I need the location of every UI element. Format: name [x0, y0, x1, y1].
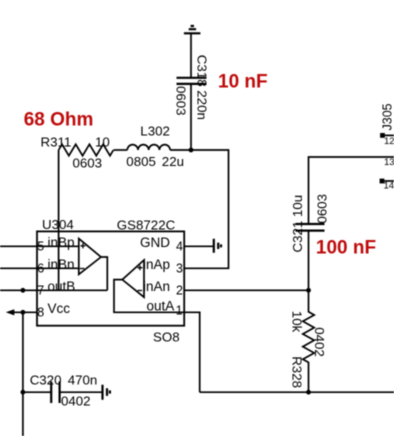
svg-text:10 nF: 10 nF [218, 72, 268, 93]
svg-text:14: 14 [384, 181, 394, 192]
svg-text:inAn: inAn [143, 279, 170, 294]
svg-text:C318 220n: C318 220n [195, 55, 210, 120]
svg-text:L302: L302 [140, 124, 170, 139]
svg-text:0603: 0603 [73, 156, 103, 171]
svg-text:2: 2 [176, 284, 183, 298]
svg-text:8: 8 [37, 306, 44, 320]
svg-text:6: 6 [37, 262, 44, 276]
svg-text:5: 5 [37, 240, 44, 254]
svg-text:GS8722C: GS8722C [117, 218, 176, 233]
svg-text:inBp: inBp [48, 235, 75, 250]
svg-text:U304: U304 [42, 217, 74, 232]
svg-text:inBn: inBn [48, 257, 75, 272]
svg-text:100 nF: 100 nF [316, 238, 376, 259]
svg-text:C321 10u: C321 10u [290, 195, 305, 253]
svg-text:10: 10 [95, 135, 110, 150]
svg-text:SO8: SO8 [153, 330, 180, 345]
svg-text:12: 12 [384, 136, 394, 147]
svg-text:22u: 22u [162, 154, 184, 169]
svg-text:inAp: inAp [143, 257, 170, 272]
svg-text:470n: 470n [68, 373, 98, 388]
svg-text:7: 7 [37, 284, 44, 298]
svg-text:0402: 0402 [312, 327, 327, 357]
svg-text:0603: 0603 [174, 86, 189, 116]
svg-text:C320: C320 [30, 373, 62, 388]
svg-text:0603: 0603 [314, 194, 329, 224]
svg-text:R311: R311 [41, 135, 72, 150]
svg-text:10k: 10k [290, 311, 305, 333]
svg-text:3: 3 [176, 262, 183, 276]
svg-text:Vcc: Vcc [48, 301, 71, 316]
svg-text:13: 13 [384, 157, 394, 168]
svg-text:outA: outA [147, 298, 175, 313]
svg-text:68 Ohm: 68 Ohm [24, 110, 94, 131]
svg-text:4: 4 [176, 240, 183, 254]
svg-text:R328: R328 [290, 356, 305, 388]
svg-text:0805: 0805 [126, 154, 156, 169]
svg-text:0402: 0402 [61, 394, 91, 409]
svg-text:1: 1 [176, 304, 183, 318]
svg-text:GND: GND [140, 235, 170, 250]
svg-text:outB: outB [48, 279, 76, 294]
svg-text:J305: J305 [381, 103, 394, 130]
